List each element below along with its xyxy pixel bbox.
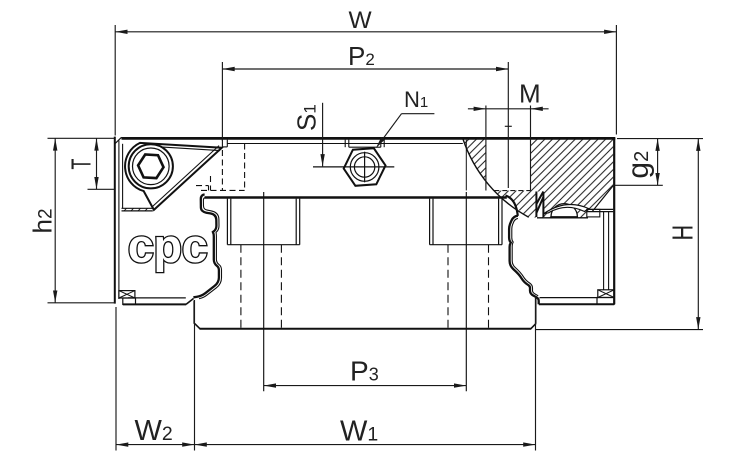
svg-text:T: T — [65, 159, 96, 170]
svg-text:cpc: cpc — [128, 219, 208, 272]
svg-text:M: M — [519, 78, 541, 108]
svg-text:W: W — [349, 7, 373, 34]
svg-text:H: H — [668, 225, 700, 241]
